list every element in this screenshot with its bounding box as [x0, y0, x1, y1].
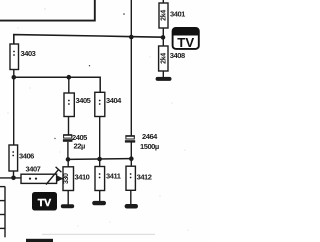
node at C2464 / R3412 [129, 156, 134, 161]
svg-text:22µ: 22µ [74, 142, 85, 151]
svg-text:TV: TV [38, 197, 51, 209]
resistor 3408 (2k4) [159, 46, 168, 77]
resistor 3407 (horizontal) [21, 174, 63, 183]
TV logo (top right) [173, 28, 199, 50]
svg-text:330: 330 [63, 173, 70, 184]
svg-text:2k4: 2k4 [161, 10, 168, 21]
scan speckle noise [8, 8, 189, 230]
connector block (left edge, partial) [0, 186, 5, 237]
dark print fragment (bottom edge) [26, 239, 53, 242]
svg-text:2k4: 2k4 [160, 53, 167, 64]
node at C2405 / R3410 [66, 157, 71, 162]
wire: stub down to R3405 [68, 77, 70, 93]
resistor 3404 [95, 92, 105, 116]
node: junction at R3401/R3408 [161, 35, 166, 40]
node below resistor 3403 [12, 75, 17, 80]
svg-text:3412: 3412 [137, 172, 152, 181]
resistor 3411 [95, 167, 105, 202]
node: junction of vertical net and top net [129, 35, 134, 40]
ground below resistor 3408 [156, 77, 172, 81]
wire: R3404 down to R3411 [99, 117, 101, 167]
capacitor 2464 (1500u electrolytic) [125, 136, 135, 166]
ground below resistor 3412 [125, 204, 138, 209]
wire: horizontal net y=77 to R3404 [14, 77, 100, 92]
faint scan line (bottom) [42, 234, 155, 235]
resistor 3410 (330) [63, 159, 74, 204]
TV logo (bottom, inverted) [32, 192, 57, 211]
ground below resistor 3410 [61, 204, 74, 208]
wire: C2405 down to bottom net [67, 142, 69, 160]
node below resistor 3406 [11, 176, 16, 181]
svg-text:1500µ: 1500µ [140, 142, 159, 151]
wire: bottom horizontal net y=159 [68, 158, 131, 161]
speck near top [123, 13, 125, 15]
svg-text:3407: 3407 [26, 165, 41, 174]
svg-text:3406: 3406 [19, 152, 34, 161]
resistor 3406 [9, 145, 18, 178]
wire: top horizontal net from R3403 to R3401/R3408 node [14, 35, 163, 44]
svg-text:3405: 3405 [76, 96, 91, 105]
svg-text:TV: TV [177, 35, 194, 50]
svg-text:3410: 3410 [75, 173, 90, 182]
resistor 3403 [10, 44, 19, 77]
svg-text:3401: 3401 [170, 9, 185, 18]
wire: R3403 net down to R3406 [13, 77, 15, 145]
ground below resistor 3411 [92, 201, 106, 205]
speck mid [89, 65, 90, 66]
wiper arrow to resistor 3410 [46, 167, 63, 185]
wire: main vertical net x=131 (to C2464) [130, 0, 132, 136]
resistor 3412 [126, 166, 135, 204]
resistor 3405 [64, 93, 74, 117]
wire: left edge to R3407 [0, 177, 21, 179]
node at R3411 [97, 157, 102, 162]
wire: R3405 down to C2405 [68, 117, 70, 135]
svg-text:3411: 3411 [106, 172, 121, 181]
svg-text:2464: 2464 [142, 132, 158, 141]
speck low [54, 138, 55, 139]
module box corner (top-left, partial block) [0, 0, 95, 21]
node at R3405 tap [67, 75, 72, 80]
svg-text:3403: 3403 [21, 49, 36, 58]
svg-text:3408: 3408 [170, 51, 185, 60]
resistor 3401 (2k4) [159, 0, 168, 46]
svg-text:3404: 3404 [106, 96, 122, 105]
capacitor 2405 (22u electrolytic) [63, 135, 73, 142]
